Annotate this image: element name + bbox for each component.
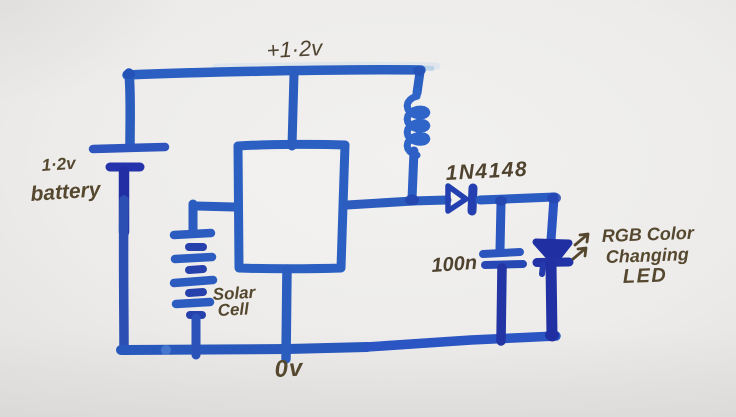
svg-text:0v: 0v — [274, 354, 305, 382]
solar cell plate 8 short — [190, 311, 202, 319]
solar cell plate 2 short — [189, 243, 203, 251]
capacitor C1 top plate — [483, 252, 520, 254]
light marker blob on rail — [161, 345, 171, 355]
wire: diode anode lead — [412, 200, 447, 201]
capacitor C1 bottom plate — [485, 264, 523, 265]
svg-text:RGB Color: RGB Color — [601, 223, 695, 246]
junction blob: top rail left corner — [123, 69, 135, 79]
wire: capacitor bottom lead — [501, 268, 502, 341]
wire: inductor top lead — [417, 72, 420, 93]
junction blob: capacitor tap — [495, 196, 507, 206]
LED light arrow 2 — [573, 248, 586, 259]
svg-text:Changing: Changing — [605, 244, 689, 267]
LED D2 cathode bar — [537, 258, 569, 268]
junction blob: inductor/diode wire — [405, 195, 419, 206]
wire: IC right pin — [347, 201, 413, 205]
inductor L1 coil — [407, 91, 427, 155]
wire: capacitor top lead — [500, 203, 501, 250]
svg-text:100n: 100n — [431, 252, 478, 277]
wire: LED cathode down to rail — [551, 264, 552, 336]
wire: 0v bottom rail left — [121, 347, 367, 350]
wire: solar cell bottom lead — [192, 318, 201, 355]
junction blob: LED corner at rail — [545, 329, 559, 341]
diode D1 1N4148 triangle — [448, 186, 466, 211]
wire: +1.2v top rail — [127, 70, 421, 75]
wire: solar cell top lead — [189, 204, 198, 231]
svg-text:Cell: Cell — [217, 299, 250, 320]
wire: IC left pin to solar cell — [196, 206, 234, 207]
solar cell plate 3 long — [175, 257, 212, 259]
solar cell plate 7 long — [176, 302, 210, 304]
wire: left branch down to 0v rail — [119, 200, 129, 348]
wire: IC bottom pin — [286, 269, 287, 359]
wire: IC top pin — [292, 74, 294, 146]
battery BT1 positive plate — [93, 147, 165, 149]
faded marker smear above top rail — [216, 65, 437, 67]
svg-text:+1·2v: +1·2v — [266, 35, 325, 63]
wire: battery top lead — [129, 73, 130, 145]
wire: 0v bottom rail right — [367, 336, 556, 347]
IC U1 box — [238, 144, 345, 268]
solar cell plate 4 short — [189, 269, 203, 270]
battery BT1 negative plate — [110, 163, 140, 172]
LED light arrow 1 — [575, 234, 588, 245]
solar cell plate 6 short — [189, 292, 203, 293]
LED D2 left leg stub — [542, 265, 543, 274]
svg-text:LED: LED — [622, 264, 667, 288]
junction blob: top rail right corner — [413, 66, 425, 76]
wire: right corner down to LED — [551, 198, 554, 240]
wire: inductor bottom lead — [412, 151, 414, 199]
solar cell plate 5 long — [174, 280, 213, 283]
svg-text:1·2v: 1·2v — [41, 154, 78, 175]
wire: diode cathode to right corner — [480, 197, 554, 200]
LED D2 triangle — [536, 242, 569, 262]
svg-text:1N4148: 1N4148 — [445, 158, 529, 185]
white patch inside IC box — [245, 152, 337, 262]
wire: battery negative stub — [119, 171, 130, 232]
diode D1 cathode bar — [472, 188, 473, 211]
junction blob: top-right corner of diode wire — [547, 193, 561, 204]
solar cell plate 1 long — [174, 233, 211, 235]
